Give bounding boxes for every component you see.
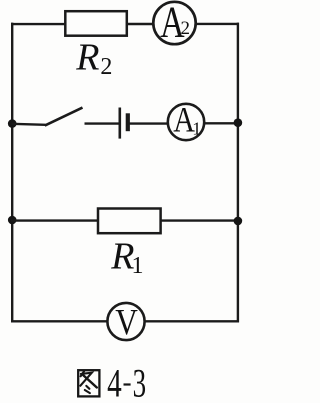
svg-text:V: V <box>115 303 138 344</box>
resistor R2 <box>65 11 127 36</box>
junction dot: left at R1 <box>8 216 17 225</box>
wire: switch to battery <box>85 122 119 124</box>
ammeter A2 circle <box>153 2 195 44</box>
wire: top, A2 to right <box>196 23 240 25</box>
ammeter A1 circle <box>168 104 204 140</box>
svg-text:R: R <box>75 36 99 78</box>
voltmeter V circle <box>107 303 144 340</box>
junction dot: right middle <box>234 118 243 127</box>
switch stub wire <box>12 124 46 125</box>
svg-text:2: 2 <box>180 18 190 39</box>
svg-text:1: 1 <box>132 253 144 279</box>
svg-text:1: 1 <box>192 119 201 139</box>
battery long plate <box>119 108 122 139</box>
svg-text:3: 3 <box>133 361 147 403</box>
wire: A1 to right <box>204 122 240 124</box>
svg-text:2: 2 <box>100 54 112 80</box>
paper background <box>0 0 245 403</box>
wire: right vertical <box>237 23 239 323</box>
wire: R1 right lead <box>160 219 239 221</box>
wire: bottom, left segment <box>11 320 109 322</box>
switch blade <box>45 108 83 126</box>
svg-text:4: 4 <box>107 361 122 403</box>
resistor R1 <box>98 209 161 234</box>
wire: bottom, right segment <box>144 320 240 322</box>
junction dot: left middle <box>8 119 17 128</box>
battery short plate <box>126 113 130 131</box>
caption hyphen <box>124 383 131 385</box>
wire: top, left segment to R2 <box>11 23 66 25</box>
wire: top, R2 to A2 <box>127 23 155 25</box>
wire: R1 left lead <box>11 219 99 221</box>
wire: battery to A1 <box>130 122 169 124</box>
wire: left vertical <box>11 23 13 323</box>
caption character 图 (hand drawn) <box>78 370 99 396</box>
junction dot: right at R1 <box>234 217 243 226</box>
